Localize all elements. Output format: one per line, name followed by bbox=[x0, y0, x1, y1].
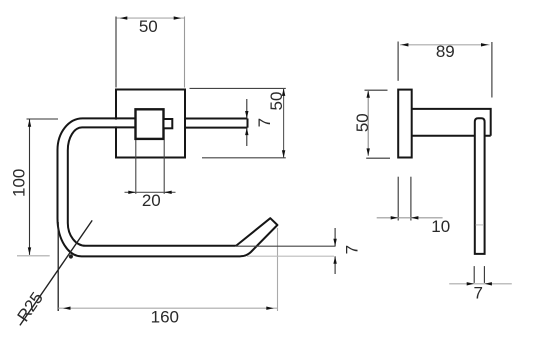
dimension 160 (bottom) bbox=[58, 222, 277, 327]
arm inner outline bbox=[68, 127, 236, 245]
svg-text:7: 7 bbox=[473, 284, 482, 303]
dimension 10 (plate thickness) bbox=[377, 177, 450, 236]
svg-text:89: 89 bbox=[436, 42, 455, 61]
rod right segment bbox=[185, 119, 248, 128]
dimension 100 (left) bbox=[9, 119, 58, 256]
svg-text:7: 7 bbox=[255, 118, 274, 127]
rod tip (upturned end) bbox=[236, 218, 278, 256]
dimension 20 (block width) bbox=[125, 140, 176, 210]
svg-text:20: 20 bbox=[142, 191, 161, 210]
svg-text:7: 7 bbox=[343, 245, 362, 254]
faint joint line on bar bbox=[476, 224, 484, 226]
dimension 89 (top of side view) bbox=[398, 42, 492, 98]
dimension 7 (bar thickness, bottom right) bbox=[449, 266, 512, 303]
svg-text:160: 160 bbox=[151, 308, 179, 327]
svg-text:50: 50 bbox=[267, 92, 286, 111]
arm outer outline bbox=[58, 118, 241, 256]
hanging bar (side view) bbox=[475, 118, 485, 254]
svg-text:50: 50 bbox=[353, 113, 372, 132]
wall plate (side view) bbox=[398, 90, 412, 158]
dimension 50 (side view plate height) bbox=[353, 90, 390, 158]
svg-text:10: 10 bbox=[431, 217, 450, 236]
rod left segment over plate edge bbox=[100, 120, 136, 127]
wall plate (front view) bbox=[116, 90, 185, 158]
dimension 7 (bar thickness at tip) bbox=[236, 228, 362, 274]
arm (side view) bbox=[412, 109, 491, 136]
dimension 50 (top) bbox=[116, 16, 185, 87]
svg-text:50: 50 bbox=[139, 17, 158, 36]
block tab bbox=[164, 119, 173, 128]
radius leader R25 bbox=[13, 220, 92, 325]
dimension 7 (rod thickness, right) bbox=[245, 99, 274, 146]
svg-text:100: 100 bbox=[9, 169, 28, 197]
dimension 50 (right of plate) bbox=[190, 88, 287, 157]
mounting block bbox=[136, 109, 164, 139]
